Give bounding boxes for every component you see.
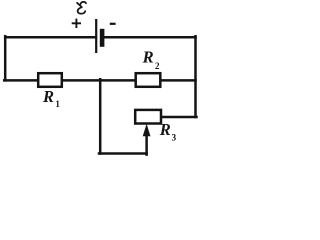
svg-text:R: R — [159, 120, 171, 139]
wire lower vertical (junction to bottom) — [99, 79, 102, 153]
resistor R2 — [136, 73, 161, 87]
wire middle center — [62, 79, 136, 82]
svg-text:3: 3 — [172, 132, 177, 142]
wire left vertical — [4, 36, 7, 80]
wiper arrow shaft — [145, 134, 148, 155]
battery negative plate (short thick) — [100, 29, 105, 47]
svg-text:1: 1 — [55, 99, 60, 109]
wire right vertical — [194, 36, 197, 117]
minus sign — [110, 23, 116, 25]
EMF script-E label — [77, 2, 86, 14]
wire top left — [5, 36, 96, 39]
wiper arrow head — [143, 124, 151, 136]
plus sign — [72, 19, 81, 28]
resistor R1 — [38, 73, 62, 87]
wire top right — [102, 36, 196, 39]
wire bottom — [99, 152, 147, 155]
wire middle left — [4, 79, 38, 82]
battery positive plate (long) — [95, 19, 97, 53]
svg-text:R: R — [142, 48, 154, 67]
wire R3 right — [162, 116, 197, 119]
svg-text:2: 2 — [155, 61, 160, 71]
wire middle right — [161, 79, 196, 82]
svg-text:R: R — [42, 87, 54, 106]
resistor R3 (rheostat body) — [135, 110, 161, 124]
